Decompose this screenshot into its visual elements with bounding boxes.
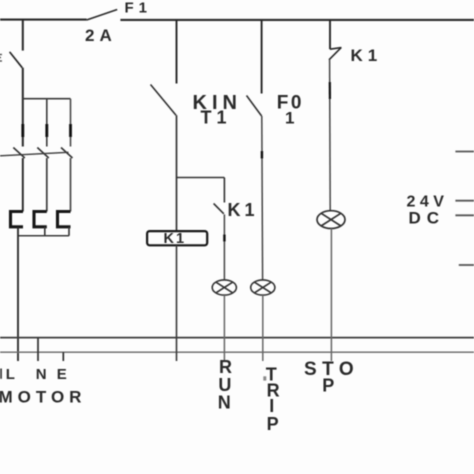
svg-text:P: P [267,414,279,434]
svg-text:T1: T1 [201,108,232,128]
overload element 3 [58,212,71,227]
wire left branch below switch [22,68,24,147]
wire K1 contact branch upper [223,178,225,203]
label cut glyph before L [0,369,2,379]
wire pole 1 lower [22,158,24,212]
svg-text:K1: K1 [351,46,383,65]
wire phase 3 drop [70,99,72,147]
wire STOP branch drop [329,20,331,49]
svg-text:N: N [36,366,47,383]
svg-text:E: E [57,366,67,383]
wire control branch 1 drop [176,20,178,84]
overload element 2 [34,212,47,227]
svg-text:1: 1 [285,109,294,128]
wire RUN lamp to bus [223,295,225,361]
svg-text:N: N [218,393,231,413]
mechanical link line [0,152,69,156]
contact K1 NC blade [329,47,341,59]
switch blade left isolator [10,52,23,68]
wire drop from overload 2 [44,227,46,236]
wire coil to bus [176,245,178,361]
svg-text:MOTOR: MOTOR [0,387,86,406]
label partial glyph at left edge [0,55,2,62]
wire top supply bus right segment [120,19,474,21]
contact blade pole 1 [13,148,24,159]
junction dark segment phase 3 [69,124,72,137]
junction dark segment stop branch [329,82,331,99]
lamp RUN [212,280,236,295]
switch KIN blade [151,85,177,116]
wire bottom bus 1 [0,337,474,339]
svg-text:K1: K1 [164,231,187,247]
terminal stub 2 [455,200,474,202]
contact blade pole 2 [37,148,49,159]
wire L conductor down to motor terminals [17,227,19,361]
lamp TRIP [251,280,275,295]
svg-text:R: R [219,357,232,377]
wire F0 branch lower [261,116,264,280]
wire drop from overload 3 [68,227,70,236]
junction dark segment run branch [223,235,225,242]
wire splitter horizontal [23,98,71,100]
svg-text:P: P [322,376,334,396]
wire pole 3 lower [70,158,72,212]
switch F0 blade [247,96,262,117]
junction dark segment phase 1 [21,124,24,137]
wire E stub [62,352,64,361]
svg-text:K1: K1 [228,200,259,220]
contact blade pole 3 [61,148,73,159]
node branch horizontal [177,177,225,179]
wire STOP lamp to bus [330,229,332,362]
lamp STOP [317,211,345,229]
svg-text:F1: F1 [125,0,153,16]
contact K1 blade [214,204,224,214]
wire top supply bus left segment [0,19,87,21]
wire collector horizontal [18,235,69,237]
terminal stub 1 [455,151,474,153]
wire left branch drop from bus [22,20,24,51]
overload element 1 [11,212,24,227]
noise speck left of T [263,376,266,380]
wire TRIP lamp to bus [262,295,264,361]
coil K1 [147,231,207,245]
wire phase 2 drop [46,99,48,147]
wire bottom bus 2 [0,351,474,353]
wire K1 contact branch lower [223,214,225,280]
wire STOP branch mid [329,60,332,211]
contact K1 NC bar [330,48,341,50]
wire F0 branch drop [261,20,263,94]
svg-text:2A: 2A [85,26,117,45]
wire N stub [37,338,39,361]
fuse-switch F1 blade [87,10,118,21]
svg-text:DC: DC [409,209,446,228]
terminal stub 3 [455,214,474,216]
svg-text:L: L [6,366,15,383]
wire control branch 1 mid [176,115,178,231]
junction dark segment trip branch [261,151,263,159]
junction dark segment phase 2 [45,124,48,137]
wire pole 2 lower [46,158,48,212]
terminal stub 4 [459,264,474,266]
